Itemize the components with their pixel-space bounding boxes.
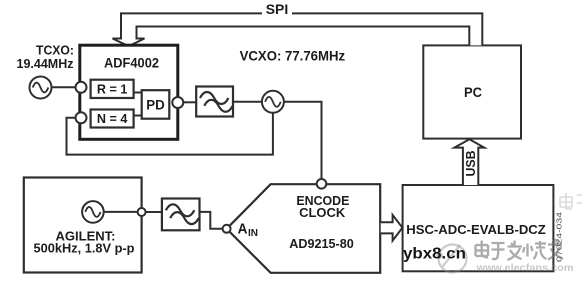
svg-text:AD9215-80: AD9215-80 [289,236,354,251]
svg-text:ybx8.cn: ybx8.cn [403,246,466,263]
svg-text:IN: IN [248,228,258,239]
svg-text:ADF4002: ADF4002 [104,56,159,71]
svg-text:A: A [238,221,248,238]
svg-text:VCXO: 77.76MHz: VCXO: 77.76MHz [240,49,346,64]
svg-text:CLOCK: CLOCK [299,205,346,220]
svg-text:HSC-ADC-EVALB-DCZ: HSC-ADC-EVALB-DCZ [406,222,546,237]
svg-text:www.elecfans.com: www.elecfans.com [475,262,573,274]
svg-text:R = 1: R = 1 [97,81,128,96]
svg-text:PD: PD [146,97,165,112]
svg-text:N = 4: N = 4 [97,111,128,126]
svg-text:19.44MHz: 19.44MHz [17,57,74,71]
svg-text:500kHz, 1.8V p-p: 500kHz, 1.8V p-p [34,241,135,256]
svg-text:PC: PC [464,84,482,100]
svg-text:SPI: SPI [266,1,289,17]
svg-text:TCXO:: TCXO: [36,44,74,58]
svg-text:USB: USB [463,151,478,177]
